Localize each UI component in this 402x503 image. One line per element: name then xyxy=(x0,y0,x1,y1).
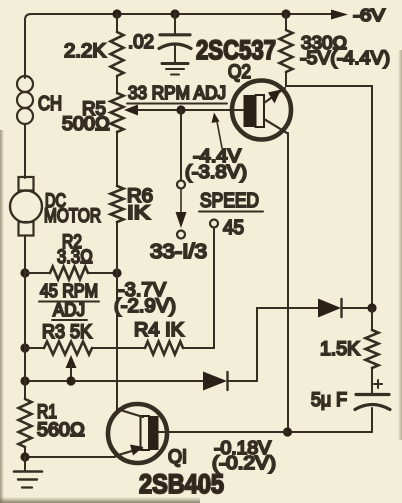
svg-text:45 RPM: 45 RPM xyxy=(40,281,98,301)
junction D2 cathode / 1.5K top xyxy=(367,303,376,312)
label SPEED xyxy=(199,190,263,212)
potentiometer R5 xyxy=(111,93,124,132)
junction R5 wiper node xyxy=(176,105,185,114)
svg-text:560Ω: 560Ω xyxy=(37,420,85,441)
voltage label -4.4V xyxy=(193,146,241,166)
value label 560 ohm xyxy=(37,420,85,441)
designator CH label xyxy=(38,93,62,115)
wire 2.2K bottom to R5 top xyxy=(116,76,118,93)
wire left rail R3 junction to wiper row xyxy=(24,348,26,381)
junction top of .02 cap xyxy=(170,9,179,18)
ground main xyxy=(14,457,42,488)
junction R3 wiper on row xyxy=(66,376,75,385)
part label 2SC537 xyxy=(196,35,276,65)
svg-text:-6V: -6V xyxy=(353,5,385,25)
wire Q1 emitter row to left rail xyxy=(25,456,115,458)
voltage leader arrow for -4.4V xyxy=(212,113,223,149)
label DC xyxy=(45,191,66,212)
designator R2 label xyxy=(62,232,82,253)
resistor 2.2K xyxy=(111,32,124,76)
junction emitter row left rail xyxy=(20,452,29,461)
resistor R2 xyxy=(25,267,117,280)
value label 5uF xyxy=(311,390,347,411)
switch wiper arm arrow xyxy=(176,189,187,228)
transistor Q2 xyxy=(232,81,291,140)
svg-text:(-3.8V): (-3.8V) xyxy=(185,162,247,182)
wire D1 cathode up and right to diode D2 xyxy=(257,308,318,381)
designator Q2 label xyxy=(228,62,251,83)
diode D2 upper xyxy=(318,299,372,318)
resistor R1 xyxy=(19,381,32,457)
resistor R6 xyxy=(111,186,124,222)
designator R5 label xyxy=(82,99,106,120)
wire left rail motor to R2 junction xyxy=(24,236,26,349)
junction R2 right / R6 bottom xyxy=(112,268,121,277)
svg-text:CH: CH xyxy=(38,93,62,115)
svg-text:.02: .02 xyxy=(128,32,154,53)
value label 3.3 ohm xyxy=(57,247,93,268)
voltage label (-3.8V) xyxy=(185,162,247,182)
power -6V arrow xyxy=(331,10,348,20)
resistor 330 ohm xyxy=(280,14,293,72)
resistor R4 xyxy=(92,342,183,355)
svg-text:MOTOR: MOTOR xyxy=(44,206,101,227)
svg-text:ADJ: ADJ xyxy=(53,300,85,320)
value label 330 ohm xyxy=(301,33,347,53)
designator R1 label xyxy=(37,402,57,423)
value label 500 ohm xyxy=(62,114,110,135)
wire Q2 collector down right-mid column xyxy=(287,133,289,432)
svg-text:IK: IK xyxy=(127,203,150,224)
svg-text:SPEED: SPEED xyxy=(200,190,259,212)
value label 2.2K xyxy=(64,41,106,62)
label MOTOR xyxy=(44,206,101,227)
svg-text:2SB405: 2SB405 xyxy=(139,469,224,499)
capacitor 5uF xyxy=(355,368,390,432)
potentiometer R3 xyxy=(25,342,92,355)
svg-text:2SC537: 2SC537 xyxy=(196,35,276,65)
switch contact 45 xyxy=(210,220,218,228)
voltage label -5V(-4.4V) xyxy=(300,48,390,68)
resistor 1.5K xyxy=(366,308,379,368)
svg-text:1.5K: 1.5K xyxy=(320,339,360,360)
svg-text:QI: QI xyxy=(168,447,187,468)
wire Q1 base row xyxy=(170,431,287,433)
designator R6 label xyxy=(127,186,153,207)
junction R3 left xyxy=(20,343,29,352)
wire Q2 emitter / 330 ohm junction to right column xyxy=(286,72,372,308)
wire R5 bottom to R6 top xyxy=(116,132,118,186)
DC motor symbol xyxy=(10,176,42,273)
designator Q1 label xyxy=(168,447,187,468)
svg-text:Q2: Q2 xyxy=(228,62,251,83)
label 33-1/3 xyxy=(150,241,207,263)
svg-text:33 RPM ADJ: 33 RPM ADJ xyxy=(128,83,226,103)
junction Q1 base / Q2 collector / cap bottom xyxy=(283,427,292,436)
junction top of 2.2K xyxy=(112,9,121,18)
wire 45 contact down to R4 xyxy=(183,228,214,349)
designator R3 5K label xyxy=(42,322,92,343)
R5 wiper arrow xyxy=(124,105,181,116)
value label 1K xyxy=(127,203,150,224)
svg-text:33-I/3: 33-I/3 xyxy=(150,241,207,263)
voltage label -0.18V xyxy=(214,438,271,458)
wire CH to DC motor xyxy=(24,124,26,176)
capacitor 5uF polarity plus xyxy=(374,380,382,388)
capacitor .02 xyxy=(159,35,191,62)
junction wiper row left rail xyxy=(20,376,29,385)
svg-text:2.2K: 2.2K xyxy=(64,41,106,62)
switch contact 33-1/3 xyxy=(177,231,185,239)
diode D1 lower xyxy=(203,372,257,391)
svg-text:R4 IK: R4 IK xyxy=(134,320,184,341)
wire R6 bottom to R2 junction xyxy=(116,222,118,273)
wire 2.2K top lead xyxy=(116,14,118,32)
label 45 xyxy=(223,217,244,239)
junction top of 330 ohm xyxy=(281,9,290,18)
svg-text:45: 45 xyxy=(223,217,244,239)
svg-text:5μ F: 5μ F xyxy=(311,390,347,411)
voltage label (-0.2V) xyxy=(212,453,276,473)
svg-text:500Ω: 500Ω xyxy=(62,114,110,135)
voltage label -3.7V xyxy=(118,280,166,301)
junction R2 left xyxy=(20,268,29,277)
R3 wiper arrow xyxy=(66,355,77,381)
wire R5 wiper to Q2 base xyxy=(181,109,232,111)
svg-text:-5V(-4.4V): -5V(-4.4V) xyxy=(300,48,390,68)
label ADJ underlined xyxy=(52,300,87,320)
switch pole contact xyxy=(177,181,185,189)
wire wiper row from left rail to diode D1 xyxy=(25,380,203,382)
svg-text:(-2.9V): (-2.9V) xyxy=(114,296,176,317)
wire top rail from left rail corner to -6V arrow xyxy=(25,14,334,78)
label 33 RPM ADJ xyxy=(127,83,227,104)
wire mid column down to Q1 collector xyxy=(116,273,118,410)
value label .02 xyxy=(128,32,154,53)
node -6V label xyxy=(353,5,385,25)
inductor CH xyxy=(17,76,33,124)
wire bottom right row cap to Q1 base junction xyxy=(288,431,372,433)
switch pole wire from wiper node xyxy=(180,110,182,180)
svg-text:R3 5K: R3 5K xyxy=(42,322,92,343)
designator R4 1K label xyxy=(134,320,184,341)
ground below .02 cap xyxy=(162,64,188,75)
label 45 RPM underlined xyxy=(39,281,99,302)
part label 2SB405 xyxy=(139,469,224,499)
wire .02 cap top lead xyxy=(174,14,176,33)
voltage label (-2.9V) xyxy=(114,296,176,317)
value label 1.5K xyxy=(320,339,360,360)
transistor Q1 xyxy=(108,404,170,463)
